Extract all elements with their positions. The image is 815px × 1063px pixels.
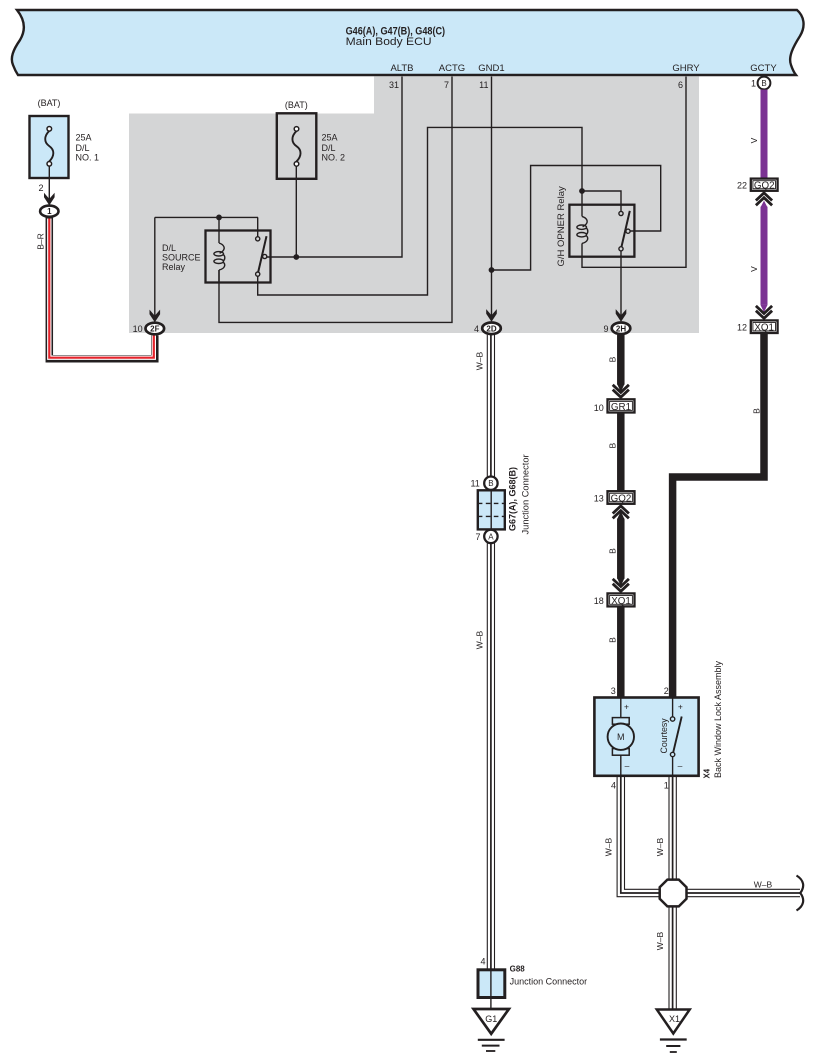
svg-text:SOURCE: SOURCE [162, 253, 201, 263]
svg-text:G67(A), G68(B): G67(A), G68(B) [508, 467, 518, 531]
svg-text:Back Window Lock Assembly: Back Window Lock Assembly [713, 660, 723, 778]
wire G88 to ground G1 [490, 998, 492, 1010]
svg-text:11: 11 [479, 80, 488, 90]
svg-text:D/L: D/L [76, 143, 90, 153]
wire G-H coil bottom to GHRY pin 6 [582, 77, 686, 268]
svg-text:B: B [607, 443, 617, 449]
svg-text:GQ2: GQ2 [611, 493, 632, 504]
motor M [608, 698, 634, 777]
coil G-H relay [581, 191, 583, 216]
relay G/H OPNER box [569, 205, 634, 257]
wire GND1 pin 11 down to 2D [491, 77, 493, 321]
connector box 22 GQ2 [737, 179, 778, 192]
connector box 13 GQ2 [594, 491, 635, 504]
node coil top G-H relay [579, 188, 585, 194]
wire V GQ2 to XQ1 [761, 207, 768, 305]
svg-text:2: 2 [664, 686, 669, 696]
connector oval 1 [40, 206, 58, 217]
svg-text:A: A [488, 532, 494, 541]
X4 box [594, 660, 722, 778]
wire V tip below GQ2 [760, 201, 767, 208]
chevrons below GQ2 22 [756, 193, 772, 205]
svg-text:(BAT): (BAT) [38, 98, 61, 108]
svg-text:M: M [617, 732, 625, 742]
wire W-B junction connector to G88 [487, 543, 494, 970]
wire B-R from connector 1 to 2F [49, 218, 155, 359]
connector oval 2F [133, 323, 165, 335]
wire W-B 2D to junction connector [487, 335, 494, 477]
svg-text:V: V [749, 266, 759, 272]
switch D/L relay [257, 217, 259, 236]
svg-text:XQ1: XQ1 [611, 596, 631, 607]
ground G1 [474, 1009, 509, 1051]
svg-text:Courtesy: Courtesy [659, 718, 669, 754]
wire D/L coil bottom to ACTG pin 7 [219, 77, 452, 323]
svg-text:–: – [678, 761, 683, 771]
svg-text:Relay: Relay [162, 262, 186, 272]
svg-text:NO. 1: NO. 1 [76, 153, 100, 163]
svg-text:2: 2 [38, 183, 43, 193]
svg-text:13: 13 [594, 494, 604, 504]
svg-text:25A: 25A [322, 132, 338, 142]
svg-text:25A: 25A [76, 132, 92, 142]
svg-text:ACTG: ACTG [439, 63, 465, 74]
wire fuse2 to node [295, 166, 297, 257]
svg-text:4: 4 [474, 324, 479, 334]
svg-text:+: + [678, 702, 683, 712]
svg-text:B: B [607, 637, 617, 643]
svg-text:10: 10 [133, 324, 143, 334]
node GND1 branch [489, 267, 495, 273]
svg-text:9: 9 [603, 324, 608, 334]
chevrons above XQ1 18 [617, 578, 624, 586]
wire W-B junction down to ground X1 [669, 906, 676, 1010]
courtesy switch [659, 698, 682, 777]
svg-text:4: 4 [611, 781, 616, 791]
switch G-H relay [582, 191, 621, 211]
svg-text:Junction Connector: Junction Connector [521, 454, 531, 534]
arrow into 2H [616, 309, 627, 322]
svg-text:G/H OPNER Relay: G/H OPNER Relay [556, 186, 567, 266]
wire W-B junction to right continuation [687, 889, 801, 896]
ground X1 [657, 1010, 690, 1053]
ground junction octagon [660, 880, 687, 907]
wire fuse1 pin 2 [48, 166, 50, 204]
svg-text:GHRY: GHRY [672, 63, 700, 74]
svg-text:B: B [607, 356, 617, 362]
svg-text:X1: X1 [669, 1014, 680, 1024]
connector circle B at GCTY pin 1 [751, 77, 770, 90]
svg-text:10: 10 [594, 403, 604, 413]
svg-text:G88: G88 [510, 965, 526, 974]
svg-text:+: + [624, 702, 629, 712]
ECU internal shaded area [129, 77, 699, 334]
svg-text:2D: 2D [486, 324, 496, 333]
svg-text:7: 7 [475, 532, 480, 542]
svg-text:B: B [752, 408, 762, 414]
connector box 12 XQ1 [737, 320, 778, 333]
svg-text:NO. 2: NO. 2 [322, 153, 346, 163]
svg-text:D/L: D/L [162, 243, 176, 253]
svg-text:Main Body ECU: Main Body ECU [346, 36, 432, 48]
connector oval 2H [603, 323, 630, 335]
svg-text:W–B: W–B [474, 630, 484, 649]
svg-text:W–B: W–B [474, 351, 484, 370]
svg-text:GQ2: GQ2 [754, 180, 775, 191]
svg-text:11: 11 [470, 479, 479, 489]
svg-text:W–B: W–B [754, 879, 773, 889]
continuation break symbol [797, 876, 804, 911]
svg-text:1: 1 [751, 79, 756, 89]
svg-text:7: 7 [444, 80, 449, 90]
svg-text:6: 6 [678, 80, 683, 90]
svg-text:X4: X4 [702, 768, 711, 778]
svg-text:W–B: W–B [655, 931, 665, 950]
svg-text:1: 1 [664, 781, 669, 791]
relay D/L SOURCE box [206, 231, 271, 283]
wire B XQ1 to X4 pin 3 [617, 606, 625, 697]
wire G-H switch common loop to GND1 branch [492, 166, 661, 271]
wire B GQ2 to XQ1 [617, 519, 625, 579]
arrow into 2D [486, 309, 497, 322]
svg-text:2F: 2F [150, 324, 159, 333]
svg-text:12: 12 [737, 322, 747, 332]
svg-text:XQ1: XQ1 [754, 322, 774, 333]
svg-text:Junction Connector: Junction Connector [510, 977, 588, 987]
wire D/L switch common to ALTB pin 31 [267, 77, 402, 258]
svg-text:2H: 2H [616, 324, 626, 333]
fuse 25A D/L NO.2 [277, 100, 345, 179]
fuse 25A D/L NO.1 [30, 98, 100, 178]
svg-text:GR1: GR1 [611, 402, 631, 413]
svg-text:W–B: W–B [604, 837, 614, 856]
wire D/L switch bottom to G-H coil top [258, 127, 582, 295]
wire B 2H to GR1 [617, 335, 625, 385]
svg-text:V: V [749, 137, 759, 143]
svg-text:1: 1 [47, 207, 52, 216]
connector oval 2D [474, 323, 501, 335]
svg-text:GND1: GND1 [478, 63, 504, 74]
svg-text:B–R: B–R [36, 233, 46, 250]
connector box 10 GR1 [594, 399, 635, 413]
svg-text:B: B [761, 79, 766, 88]
svg-text:B: B [607, 548, 617, 554]
wire 2F feed horizontal [155, 216, 258, 218]
wire B from XQ1 12 down and left to X4 pin 2 [673, 333, 764, 698]
svg-text:3: 3 [611, 686, 616, 696]
svg-text:22: 22 [737, 180, 747, 190]
svg-text:18: 18 [594, 596, 604, 606]
junction node fuse2/ALTB wire [293, 254, 299, 260]
wire G-H switch bottom to 2H [620, 251, 622, 321]
svg-text:GCTY: GCTY [750, 63, 777, 74]
chevrons below GQ2 13 [613, 506, 629, 518]
coil D/L relay [218, 217, 220, 243]
chevrons above GR1 [617, 384, 624, 392]
wire 2F drop [154, 217, 156, 321]
junction connector G67(A) G68(B) [470, 454, 530, 543]
wire B GR1 to GQ2 [617, 413, 625, 492]
ECU banner G46(A), G47(B), G48(C) Main Body ECU [12, 10, 804, 75]
node coil top D/L relay [216, 215, 222, 221]
svg-text:D/L: D/L [322, 143, 336, 153]
wire B tip below GQ2 13 [617, 511, 624, 519]
connector box 18 XQ1 [594, 593, 635, 607]
wire V from B circle to GQ2 [761, 90, 768, 179]
wire W-B X4 pin 4 to ground junction [611, 776, 660, 896]
svg-text:4: 4 [480, 957, 485, 967]
junction connector G88 [478, 957, 587, 998]
chevrons above XQ1 12 [760, 305, 767, 313]
svg-text:W–B: W–B [655, 837, 665, 856]
svg-text:–: – [625, 761, 630, 771]
svg-text:B: B [488, 479, 493, 488]
svg-text:31: 31 [389, 80, 399, 90]
wire W-B X4 pin 1 to ground junction [664, 776, 677, 880]
svg-text:(BAT): (BAT) [285, 100, 308, 110]
svg-text:ALTB: ALTB [390, 63, 413, 74]
svg-text:G1: G1 [485, 1014, 497, 1024]
